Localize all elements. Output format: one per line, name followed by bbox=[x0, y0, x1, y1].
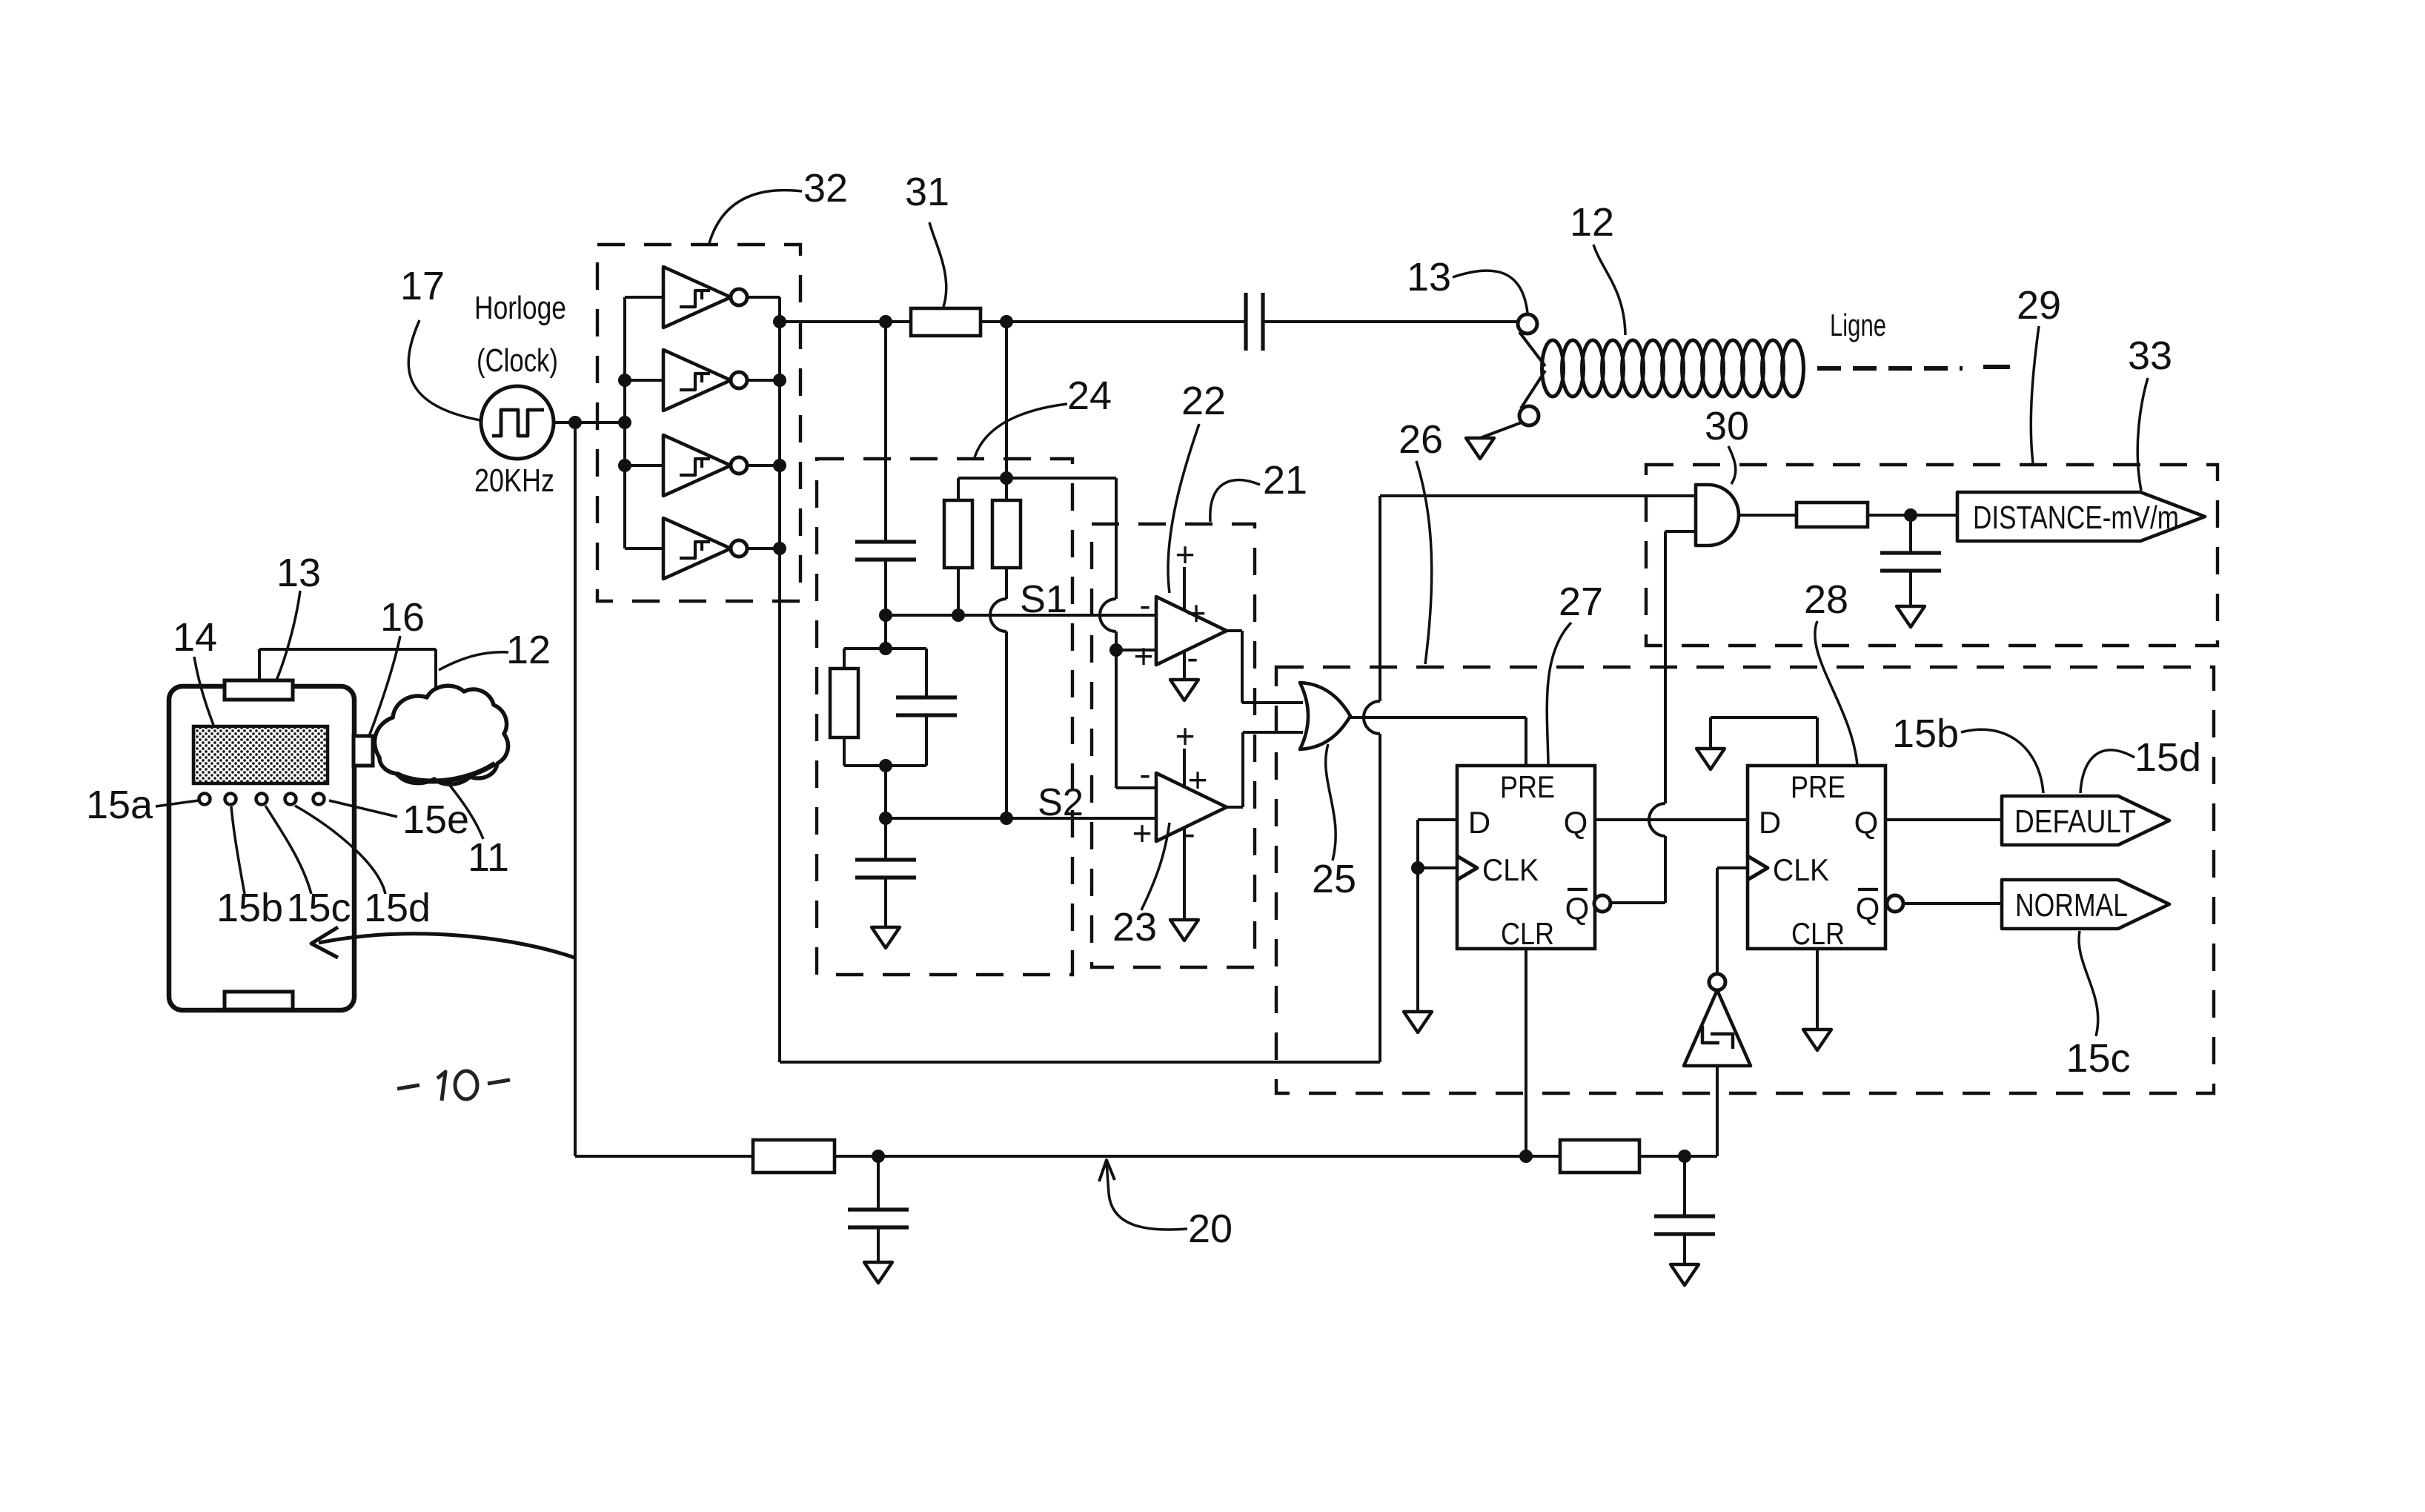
svg-text:S2: S2 bbox=[1038, 781, 1084, 824]
svg-text:15c: 15c bbox=[286, 886, 351, 930]
svg-text:13: 13 bbox=[276, 551, 321, 595]
svg-text:15e: 15e bbox=[402, 798, 469, 842]
svg-text:15d: 15d bbox=[364, 886, 431, 930]
svg-text:Q: Q bbox=[1854, 805, 1879, 840]
svg-text:15b: 15b bbox=[1892, 712, 1959, 756]
svg-text:15a: 15a bbox=[86, 783, 153, 827]
svg-text:33: 33 bbox=[2128, 334, 2172, 378]
svg-text:Ligne: Ligne bbox=[1830, 308, 1886, 342]
svg-text:+: + bbox=[1175, 717, 1195, 755]
svg-text:+: + bbox=[1187, 594, 1207, 632]
svg-text:DEFAULT: DEFAULT bbox=[2014, 803, 2136, 840]
svg-text:+: + bbox=[1188, 760, 1208, 799]
svg-text:31: 31 bbox=[905, 170, 949, 214]
svg-text:15d: 15d bbox=[2134, 735, 2201, 780]
svg-text:12: 12 bbox=[1570, 200, 1614, 245]
svg-text:11: 11 bbox=[468, 835, 509, 880]
svg-text:25: 25 bbox=[1312, 857, 1356, 901]
svg-text:15c: 15c bbox=[2066, 1036, 2130, 1081]
svg-text:CLR: CLR bbox=[1791, 916, 1845, 951]
svg-text:29: 29 bbox=[2017, 283, 2061, 328]
svg-text:Horloge: Horloge bbox=[474, 290, 566, 326]
svg-text:16: 16 bbox=[380, 595, 425, 640]
svg-text:15b: 15b bbox=[216, 886, 283, 930]
svg-text:23: 23 bbox=[1112, 905, 1157, 949]
svg-text:24: 24 bbox=[1067, 374, 1112, 418]
svg-text:NORMAL: NORMAL bbox=[2015, 887, 2128, 924]
svg-text:30: 30 bbox=[1705, 404, 1749, 448]
svg-text:PRE: PRE bbox=[1500, 769, 1555, 804]
svg-text:28: 28 bbox=[1804, 577, 1848, 622]
svg-text:22: 22 bbox=[1181, 379, 1226, 423]
svg-text:13: 13 bbox=[1407, 255, 1451, 299]
svg-text:+: + bbox=[1134, 637, 1154, 675]
svg-text:32: 32 bbox=[803, 166, 848, 210]
svg-text:-: - bbox=[1139, 586, 1150, 624]
svg-text:S1: S1 bbox=[1020, 578, 1067, 621]
svg-text:+: + bbox=[1132, 814, 1152, 852]
svg-text:(Clock): (Clock) bbox=[477, 342, 558, 379]
svg-text:PRE: PRE bbox=[1791, 769, 1845, 804]
svg-text:20KHz: 20KHz bbox=[474, 462, 554, 499]
svg-text:CLK: CLK bbox=[1482, 852, 1539, 887]
svg-text:-: - bbox=[1187, 638, 1198, 677]
svg-text:Q: Q bbox=[1564, 805, 1588, 840]
svg-text:27: 27 bbox=[1559, 580, 1603, 624]
svg-text:17: 17 bbox=[400, 264, 445, 308]
svg-text:+: + bbox=[1175, 535, 1195, 574]
svg-text:26: 26 bbox=[1399, 417, 1443, 462]
svg-text:D: D bbox=[1759, 805, 1781, 840]
svg-text:14: 14 bbox=[173, 615, 217, 660]
svg-text:21: 21 bbox=[1263, 458, 1307, 503]
svg-text:Q: Q bbox=[1565, 891, 1590, 926]
svg-text:-: - bbox=[1139, 755, 1150, 793]
svg-text:CLK: CLK bbox=[1773, 852, 1829, 887]
svg-text:CLR: CLR bbox=[1501, 916, 1554, 951]
svg-text:20: 20 bbox=[1188, 1207, 1233, 1251]
svg-text:-: - bbox=[1184, 814, 1195, 852]
svg-text:Q: Q bbox=[1856, 891, 1880, 926]
svg-text:D: D bbox=[1468, 805, 1490, 840]
svg-text:12: 12 bbox=[506, 628, 551, 672]
svg-text:DISTANCE-mV/m: DISTANCE-mV/m bbox=[1973, 500, 2179, 536]
